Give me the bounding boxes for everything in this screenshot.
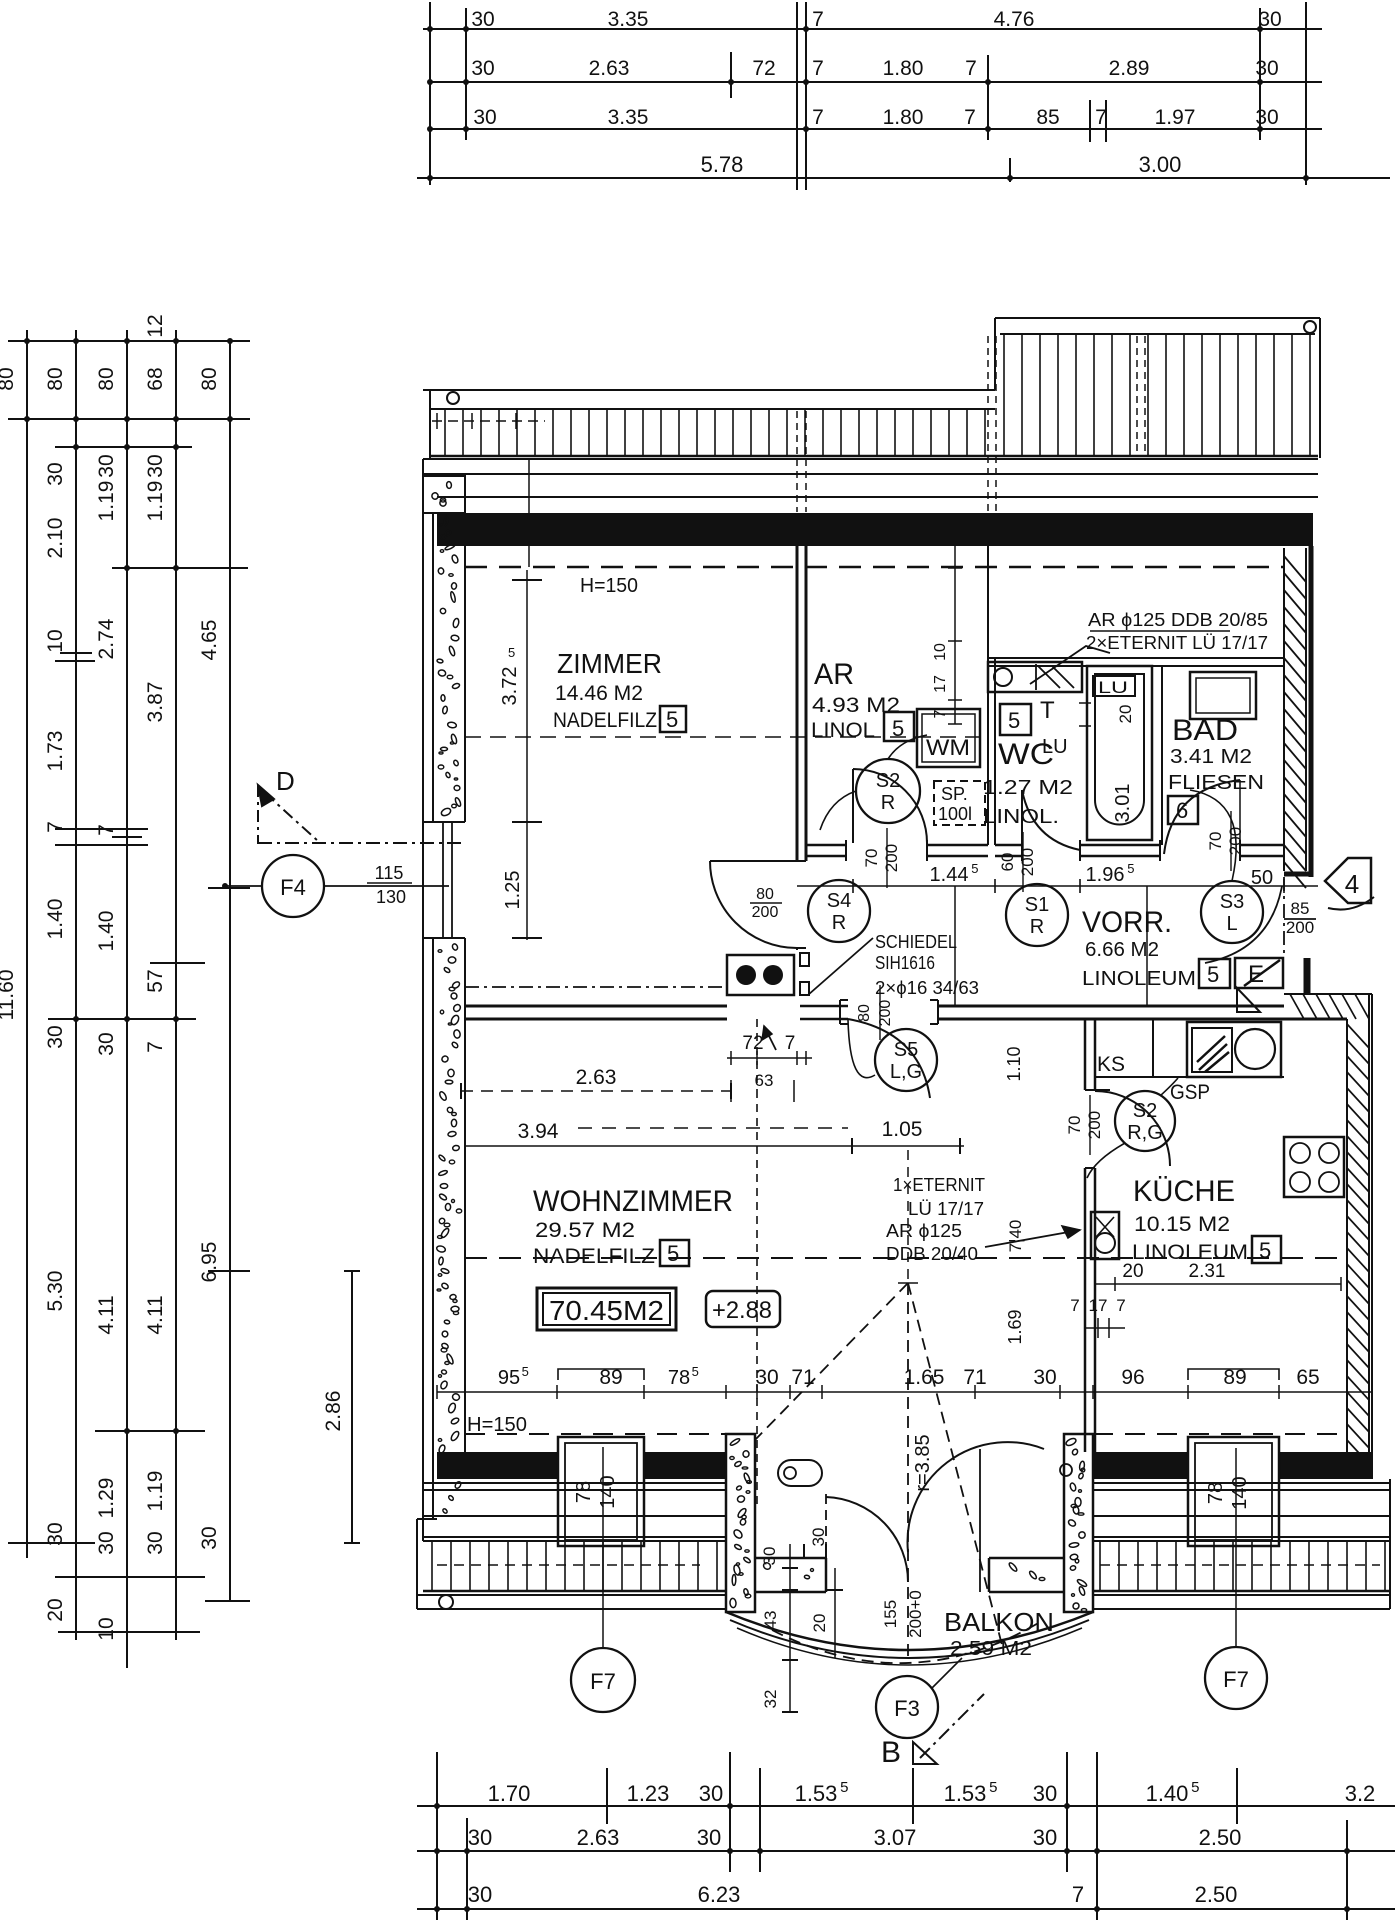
svg-text:5: 5 xyxy=(666,707,678,732)
svg-text:14.46 M2: 14.46 M2 xyxy=(555,682,643,705)
svg-text:30: 30 xyxy=(809,1528,828,1547)
svg-text:43: 43 xyxy=(761,1611,780,1630)
svg-text:30: 30 xyxy=(1033,1366,1056,1389)
svg-text:20: 20 xyxy=(1116,705,1135,724)
svg-text:20: 20 xyxy=(1122,1261,1143,1282)
svg-text:LU: LU xyxy=(1098,678,1128,697)
svg-text:1.80: 1.80 xyxy=(883,57,924,80)
svg-text:3.35: 3.35 xyxy=(608,106,649,129)
svg-text:3.00: 3.00 xyxy=(1139,152,1182,177)
svg-text:30: 30 xyxy=(468,1882,492,1907)
svg-text:S2: S2 xyxy=(1133,1100,1157,1122)
svg-text:VORR.: VORR. xyxy=(1082,906,1172,939)
svg-text:1.40: 1.40 xyxy=(95,911,118,952)
svg-text:1.53: 1.53 xyxy=(944,1781,987,1806)
svg-text:10.15 M2: 10.15 M2 xyxy=(1134,1213,1230,1236)
svg-text:30: 30 xyxy=(44,1025,67,1048)
svg-text:30: 30 xyxy=(44,462,67,485)
svg-text:5: 5 xyxy=(840,1779,848,1796)
svg-text:5.30: 5.30 xyxy=(44,1271,67,1312)
svg-text:155: 155 xyxy=(881,1600,900,1628)
svg-text:80: 80 xyxy=(756,886,774,903)
svg-text:1.25: 1.25 xyxy=(502,871,524,910)
svg-text:LU: LU xyxy=(1042,736,1068,758)
svg-text:5: 5 xyxy=(522,1364,529,1379)
svg-text:AR ϕ125 DDB 20/85: AR ϕ125 DDB 20/85 xyxy=(1088,610,1268,630)
svg-text:B: B xyxy=(881,1736,901,1769)
svg-text:30: 30 xyxy=(1033,1781,1057,1806)
svg-text:1.19: 1.19 xyxy=(144,481,167,522)
svg-text:1.40: 1.40 xyxy=(1146,1781,1189,1806)
svg-text:1.73: 1.73 xyxy=(44,731,67,772)
svg-text:LINOL: LINOL xyxy=(811,719,875,742)
svg-text:1.96: 1.96 xyxy=(1086,864,1125,886)
svg-text:30: 30 xyxy=(95,1531,118,1554)
svg-text:S4: S4 xyxy=(827,890,851,912)
svg-text:80: 80 xyxy=(95,367,118,390)
svg-text:FLIESEN: FLIESEN xyxy=(1168,772,1264,794)
svg-text:2.31: 2.31 xyxy=(1189,1261,1226,1282)
svg-text:NADELFILZ: NADELFILZ xyxy=(553,709,657,732)
svg-text:71: 71 xyxy=(791,1366,814,1389)
svg-text:12: 12 xyxy=(144,314,167,337)
svg-text:6.23: 6.23 xyxy=(698,1882,741,1907)
svg-text:6.95: 6.95 xyxy=(198,1242,221,1283)
svg-text:200: 200 xyxy=(1018,848,1037,876)
svg-text:11.60: 11.60 xyxy=(0,970,18,1021)
svg-text:R,G: R,G xyxy=(1127,1122,1163,1144)
svg-text:2×ϕ16 34/63: 2×ϕ16 34/63 xyxy=(875,978,979,998)
svg-text:70: 70 xyxy=(862,849,881,868)
svg-text:2.63: 2.63 xyxy=(589,57,630,80)
svg-text:3.72: 3.72 xyxy=(499,667,521,706)
svg-text:72: 72 xyxy=(742,1033,763,1054)
svg-text:AR ϕ125: AR ϕ125 xyxy=(886,1221,962,1241)
svg-text:2.63: 2.63 xyxy=(577,1825,620,1850)
svg-text:7¦40: 7¦40 xyxy=(1006,1220,1025,1253)
svg-text:70.45M2: 70.45M2 xyxy=(549,1295,664,1326)
svg-text:7: 7 xyxy=(812,106,824,129)
svg-text:30: 30 xyxy=(699,1781,723,1806)
svg-text:80: 80 xyxy=(856,1004,873,1022)
svg-text:1.53: 1.53 xyxy=(795,1781,838,1806)
svg-text:68: 68 xyxy=(144,367,167,390)
svg-text:10: 10 xyxy=(95,1617,118,1640)
svg-text:30: 30 xyxy=(755,1366,778,1389)
svg-text:3.87: 3.87 xyxy=(144,682,167,723)
svg-text:72: 72 xyxy=(752,57,775,80)
svg-text:7: 7 xyxy=(95,824,118,836)
svg-text:30: 30 xyxy=(1255,106,1278,129)
svg-text:2.10: 2.10 xyxy=(44,518,67,559)
svg-text:1.19: 1.19 xyxy=(144,1471,167,1512)
svg-text:L,G: L,G xyxy=(890,1061,922,1083)
svg-text:1.40: 1.40 xyxy=(44,899,67,940)
svg-text:30: 30 xyxy=(697,1825,721,1850)
svg-text:LINOLEUM: LINOLEUM xyxy=(1082,968,1196,990)
svg-text:17: 17 xyxy=(932,675,949,693)
svg-text:140: 140 xyxy=(1229,1476,1251,1509)
svg-text:7: 7 xyxy=(964,106,976,129)
svg-text:5: 5 xyxy=(1008,708,1020,733)
svg-text:D: D xyxy=(276,766,295,796)
svg-text:1.23: 1.23 xyxy=(627,1781,670,1806)
svg-text:DDB 20/40: DDB 20/40 xyxy=(886,1244,978,1264)
svg-text:130: 130 xyxy=(376,887,406,907)
svg-text:5: 5 xyxy=(1207,962,1219,987)
svg-text:7: 7 xyxy=(1116,1296,1125,1315)
svg-text:3.41 M2: 3.41 M2 xyxy=(1170,746,1252,768)
svg-text:7: 7 xyxy=(1072,1882,1084,1907)
svg-text:20: 20 xyxy=(810,1614,829,1633)
svg-text:30: 30 xyxy=(95,454,118,477)
svg-text:S1: S1 xyxy=(1025,894,1049,916)
svg-text:7: 7 xyxy=(812,8,824,31)
svg-text:1.10: 1.10 xyxy=(1004,1046,1024,1081)
svg-text:115: 115 xyxy=(375,863,404,883)
svg-text:5: 5 xyxy=(508,645,515,660)
svg-text:30: 30 xyxy=(468,1825,492,1850)
svg-text:85: 85 xyxy=(1291,899,1310,918)
svg-text:R: R xyxy=(881,792,895,814)
svg-text:5: 5 xyxy=(692,1364,699,1379)
svg-text:R: R xyxy=(1030,916,1044,938)
svg-text:80: 80 xyxy=(0,367,18,390)
svg-text:7: 7 xyxy=(812,57,824,80)
svg-text:2×ETERNIT LÜ 17/17: 2×ETERNIT LÜ 17/17 xyxy=(1086,633,1268,653)
svg-text:32: 32 xyxy=(761,1690,780,1709)
svg-text:KÜCHE: KÜCHE xyxy=(1133,1175,1235,1208)
svg-text:63: 63 xyxy=(755,1071,774,1090)
svg-text:2.59 M2: 2.59 M2 xyxy=(950,1638,1032,1660)
svg-text:2.50: 2.50 xyxy=(1199,1825,1242,1850)
svg-text:78: 78 xyxy=(668,1367,690,1389)
svg-text:S2: S2 xyxy=(876,770,900,792)
svg-text:78: 78 xyxy=(1205,1482,1227,1504)
svg-text:29.57 M2: 29.57 M2 xyxy=(535,1219,635,1242)
svg-text:30: 30 xyxy=(1255,57,1278,80)
svg-text:2.89: 2.89 xyxy=(1109,57,1150,80)
svg-text:5.78: 5.78 xyxy=(701,152,744,177)
svg-text:1.65: 1.65 xyxy=(904,1366,945,1389)
svg-text:7: 7 xyxy=(1070,1296,1079,1315)
svg-text:1.44: 1.44 xyxy=(930,864,969,886)
svg-text:30: 30 xyxy=(44,1522,67,1545)
svg-text:70: 70 xyxy=(1206,832,1225,851)
svg-text:200+0: 200+0 xyxy=(906,1590,925,1638)
svg-text:30: 30 xyxy=(1033,1825,1057,1850)
svg-text:100l: 100l xyxy=(938,804,972,824)
svg-text:3.07: 3.07 xyxy=(874,1825,917,1850)
svg-text:1.29: 1.29 xyxy=(95,1478,118,1519)
svg-text:ZIMMER: ZIMMER xyxy=(557,648,662,679)
svg-text:+2.88: +2.88 xyxy=(712,1297,772,1324)
svg-text:30: 30 xyxy=(471,8,494,31)
svg-text:30: 30 xyxy=(760,1547,779,1566)
svg-text:1.69: 1.69 xyxy=(1005,1309,1025,1344)
svg-text:30: 30 xyxy=(473,106,496,129)
svg-text:30: 30 xyxy=(95,1032,118,1055)
svg-text:5: 5 xyxy=(1127,861,1134,876)
svg-text:2.50: 2.50 xyxy=(1195,1882,1238,1907)
svg-text:T: T xyxy=(1040,697,1055,724)
svg-text:10: 10 xyxy=(44,629,67,652)
svg-text:30: 30 xyxy=(471,57,494,80)
svg-text:BAD: BAD xyxy=(1172,714,1238,747)
svg-text:200: 200 xyxy=(1085,1111,1104,1139)
svg-text:KS: KS xyxy=(1097,1053,1125,1076)
svg-text:4.65: 4.65 xyxy=(198,620,221,661)
svg-text:1.97: 1.97 xyxy=(1155,106,1196,129)
svg-text:2.63: 2.63 xyxy=(576,1066,617,1089)
svg-text:78: 78 xyxy=(573,1481,595,1503)
svg-text:3.2: 3.2 xyxy=(1345,1781,1376,1806)
svg-text:7: 7 xyxy=(1095,106,1107,129)
svg-text:70: 70 xyxy=(1065,1116,1084,1135)
svg-text:F3: F3 xyxy=(894,1696,920,1721)
svg-text:30: 30 xyxy=(144,1531,167,1554)
svg-text:BALKON: BALKON xyxy=(944,1607,1054,1637)
svg-text:80: 80 xyxy=(44,367,67,390)
svg-text:57: 57 xyxy=(144,969,167,992)
svg-text:NADELFILZ: NADELFILZ xyxy=(533,1245,655,1268)
svg-text:1×ETERNIT: 1×ETERNIT xyxy=(893,1175,985,1195)
svg-text:5: 5 xyxy=(1259,1238,1271,1263)
svg-text:30: 30 xyxy=(198,1526,221,1549)
svg-text:60: 60 xyxy=(998,853,1017,872)
svg-text:F4: F4 xyxy=(280,875,306,900)
svg-text:S3: S3 xyxy=(1220,891,1244,913)
svg-text:H=150: H=150 xyxy=(467,1414,527,1436)
svg-text:5: 5 xyxy=(989,1779,997,1796)
svg-text:10: 10 xyxy=(932,643,949,661)
svg-text:R: R xyxy=(832,912,846,934)
svg-text:L: L xyxy=(1226,913,1237,935)
svg-text:71: 71 xyxy=(963,1366,986,1389)
svg-text:4: 4 xyxy=(1345,869,1359,899)
svg-text:2.74: 2.74 xyxy=(95,618,118,659)
svg-text:2.86: 2.86 xyxy=(322,1391,345,1432)
svg-text:6.66 M2: 6.66 M2 xyxy=(1085,939,1159,961)
svg-text:200: 200 xyxy=(1226,827,1245,855)
svg-text:7: 7 xyxy=(965,57,977,80)
svg-text:3.35: 3.35 xyxy=(608,8,649,31)
svg-text:200: 200 xyxy=(752,904,779,921)
svg-text:7: 7 xyxy=(44,821,67,833)
svg-text:17: 17 xyxy=(1089,1296,1108,1315)
svg-text:65: 65 xyxy=(1296,1366,1319,1389)
svg-text:5: 5 xyxy=(667,1241,679,1266)
svg-text:WM: WM xyxy=(926,735,970,760)
svg-text:F7: F7 xyxy=(590,1669,616,1694)
svg-text:1.80: 1.80 xyxy=(883,106,924,129)
svg-text:3.94: 3.94 xyxy=(518,1120,559,1143)
svg-text:AR: AR xyxy=(814,658,854,691)
svg-text:30: 30 xyxy=(1258,8,1281,31)
svg-text:200: 200 xyxy=(1286,918,1314,937)
svg-text:GSP: GSP xyxy=(1170,1081,1210,1104)
svg-text:5: 5 xyxy=(971,861,978,876)
svg-text:20: 20 xyxy=(44,1598,67,1621)
svg-text:7: 7 xyxy=(785,1033,796,1054)
svg-text:80: 80 xyxy=(198,367,221,390)
svg-text:r=3.85: r=3.85 xyxy=(912,1434,934,1491)
svg-text:S5: S5 xyxy=(894,1039,918,1061)
svg-text:SCHIEDEL: SCHIEDEL xyxy=(875,932,957,952)
svg-text:WOHNZIMMER: WOHNZIMMER xyxy=(533,1185,733,1218)
svg-text:140: 140 xyxy=(597,1475,619,1508)
svg-text:50: 50 xyxy=(1251,867,1273,889)
svg-text:4.93 M2: 4.93 M2 xyxy=(812,694,900,717)
svg-text:7: 7 xyxy=(144,1041,167,1053)
svg-text:F7: F7 xyxy=(1223,1667,1249,1692)
svg-text:95: 95 xyxy=(498,1367,520,1389)
svg-text:3.01: 3.01 xyxy=(1112,784,1134,823)
svg-text:1.05: 1.05 xyxy=(882,1118,923,1141)
svg-text:1.70: 1.70 xyxy=(488,1781,531,1806)
svg-text:6: 6 xyxy=(1176,798,1188,823)
svg-text:H=150: H=150 xyxy=(580,575,638,597)
svg-text:200: 200 xyxy=(882,844,901,872)
svg-text:4.11: 4.11 xyxy=(144,1295,167,1334)
svg-text:85: 85 xyxy=(1036,106,1059,129)
svg-text:30: 30 xyxy=(144,454,167,477)
svg-text:4.11: 4.11 xyxy=(95,1295,118,1334)
svg-text:1.27 M2: 1.27 M2 xyxy=(983,777,1073,799)
svg-text:5: 5 xyxy=(1191,1779,1199,1796)
svg-text:LÜ 17/17: LÜ 17/17 xyxy=(908,1199,984,1219)
svg-text:4.76: 4.76 xyxy=(994,8,1035,31)
svg-text:E: E xyxy=(1248,961,1264,988)
svg-text:SIH1616: SIH1616 xyxy=(875,953,935,973)
svg-text:1.19: 1.19 xyxy=(95,481,118,522)
svg-text:SP.: SP. xyxy=(941,784,968,804)
svg-text:96: 96 xyxy=(1121,1366,1144,1389)
svg-text:LINOL.: LINOL. xyxy=(983,806,1059,828)
